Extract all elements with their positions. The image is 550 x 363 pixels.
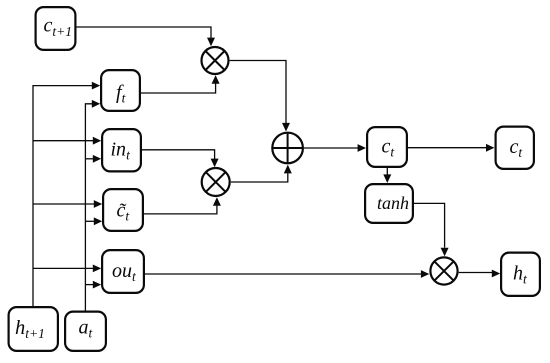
box in_t: [102, 129, 141, 171]
arrowhead into ctilde lower: [94, 217, 102, 225]
wire c_t+1 to multiply M1: [77, 27, 212, 38]
arrowhead into P1 top: [282, 123, 290, 132]
arrowhead into ou_t upper: [93, 265, 101, 273]
multiply circle M1: [202, 47, 229, 74]
wire M1 output to plus P1 top: [230, 61, 286, 124]
arrowhead into M2 top: [211, 159, 219, 168]
box h_t+1: [9, 307, 58, 351]
arrowhead into h_t left: [492, 270, 500, 278]
arrowhead into tanh top: [383, 174, 391, 183]
box c_t+1: [36, 7, 76, 50]
arrowhead into M1 bottom: [212, 75, 220, 84]
box c_tilde: [103, 189, 143, 231]
plus circle P1: [272, 133, 303, 164]
wire c_t to right c_t: [408, 147, 486, 149]
wire a_t vertical bus: [85, 104, 94, 311]
wire ctilde output to multiply M2 bottom: [144, 206, 217, 214]
arrowhead into ctilde upper: [94, 200, 102, 208]
box ou_t: [102, 250, 144, 293]
multiply circle M2: [202, 168, 230, 196]
box h_t: [501, 253, 540, 296]
wire in_t output to multiply M2 top: [142, 150, 215, 159]
arrowhead into f_t lower: [92, 100, 100, 108]
box c_t middle: [367, 127, 407, 167]
arrowhead into M3 top: [441, 248, 449, 257]
arrowhead into P1 bottom: [284, 165, 292, 174]
wire ou_t output to multiply M3 left: [145, 273, 421, 275]
multiply circle M3: [430, 257, 457, 284]
wire h_t+1 vertical bus: [33, 86, 94, 306]
box tanh: [365, 184, 413, 223]
box c_t right: [496, 127, 534, 169]
arrowhead into in_t upper: [93, 137, 101, 145]
arrowhead into right c_t: [486, 144, 494, 152]
wire f_t output to multiply M1 bottom: [141, 84, 216, 94]
wire c_t down to tanh: [386, 168, 388, 175]
arrowhead into M3 left: [421, 270, 429, 278]
arrowhead into f_t upper: [92, 82, 100, 90]
box f_t: [101, 70, 140, 111]
wire tanh output to multiply M3 top: [414, 203, 445, 247]
arrowhead into M1 top: [207, 38, 215, 47]
svg-text:tanh: tanh: [377, 193, 409, 213]
arrowhead into c_t left: [358, 144, 366, 152]
arrowhead into M2 bottom: [213, 197, 221, 206]
arrowhead into in_t lower: [93, 155, 101, 163]
wire M3 output to h_t: [459, 272, 492, 274]
arrowhead into ou_t lower: [93, 281, 101, 289]
wire M2 output to plus P1 bottom: [231, 173, 288, 182]
wire P1 output to c_t: [304, 147, 358, 149]
box a_t: [65, 312, 106, 351]
